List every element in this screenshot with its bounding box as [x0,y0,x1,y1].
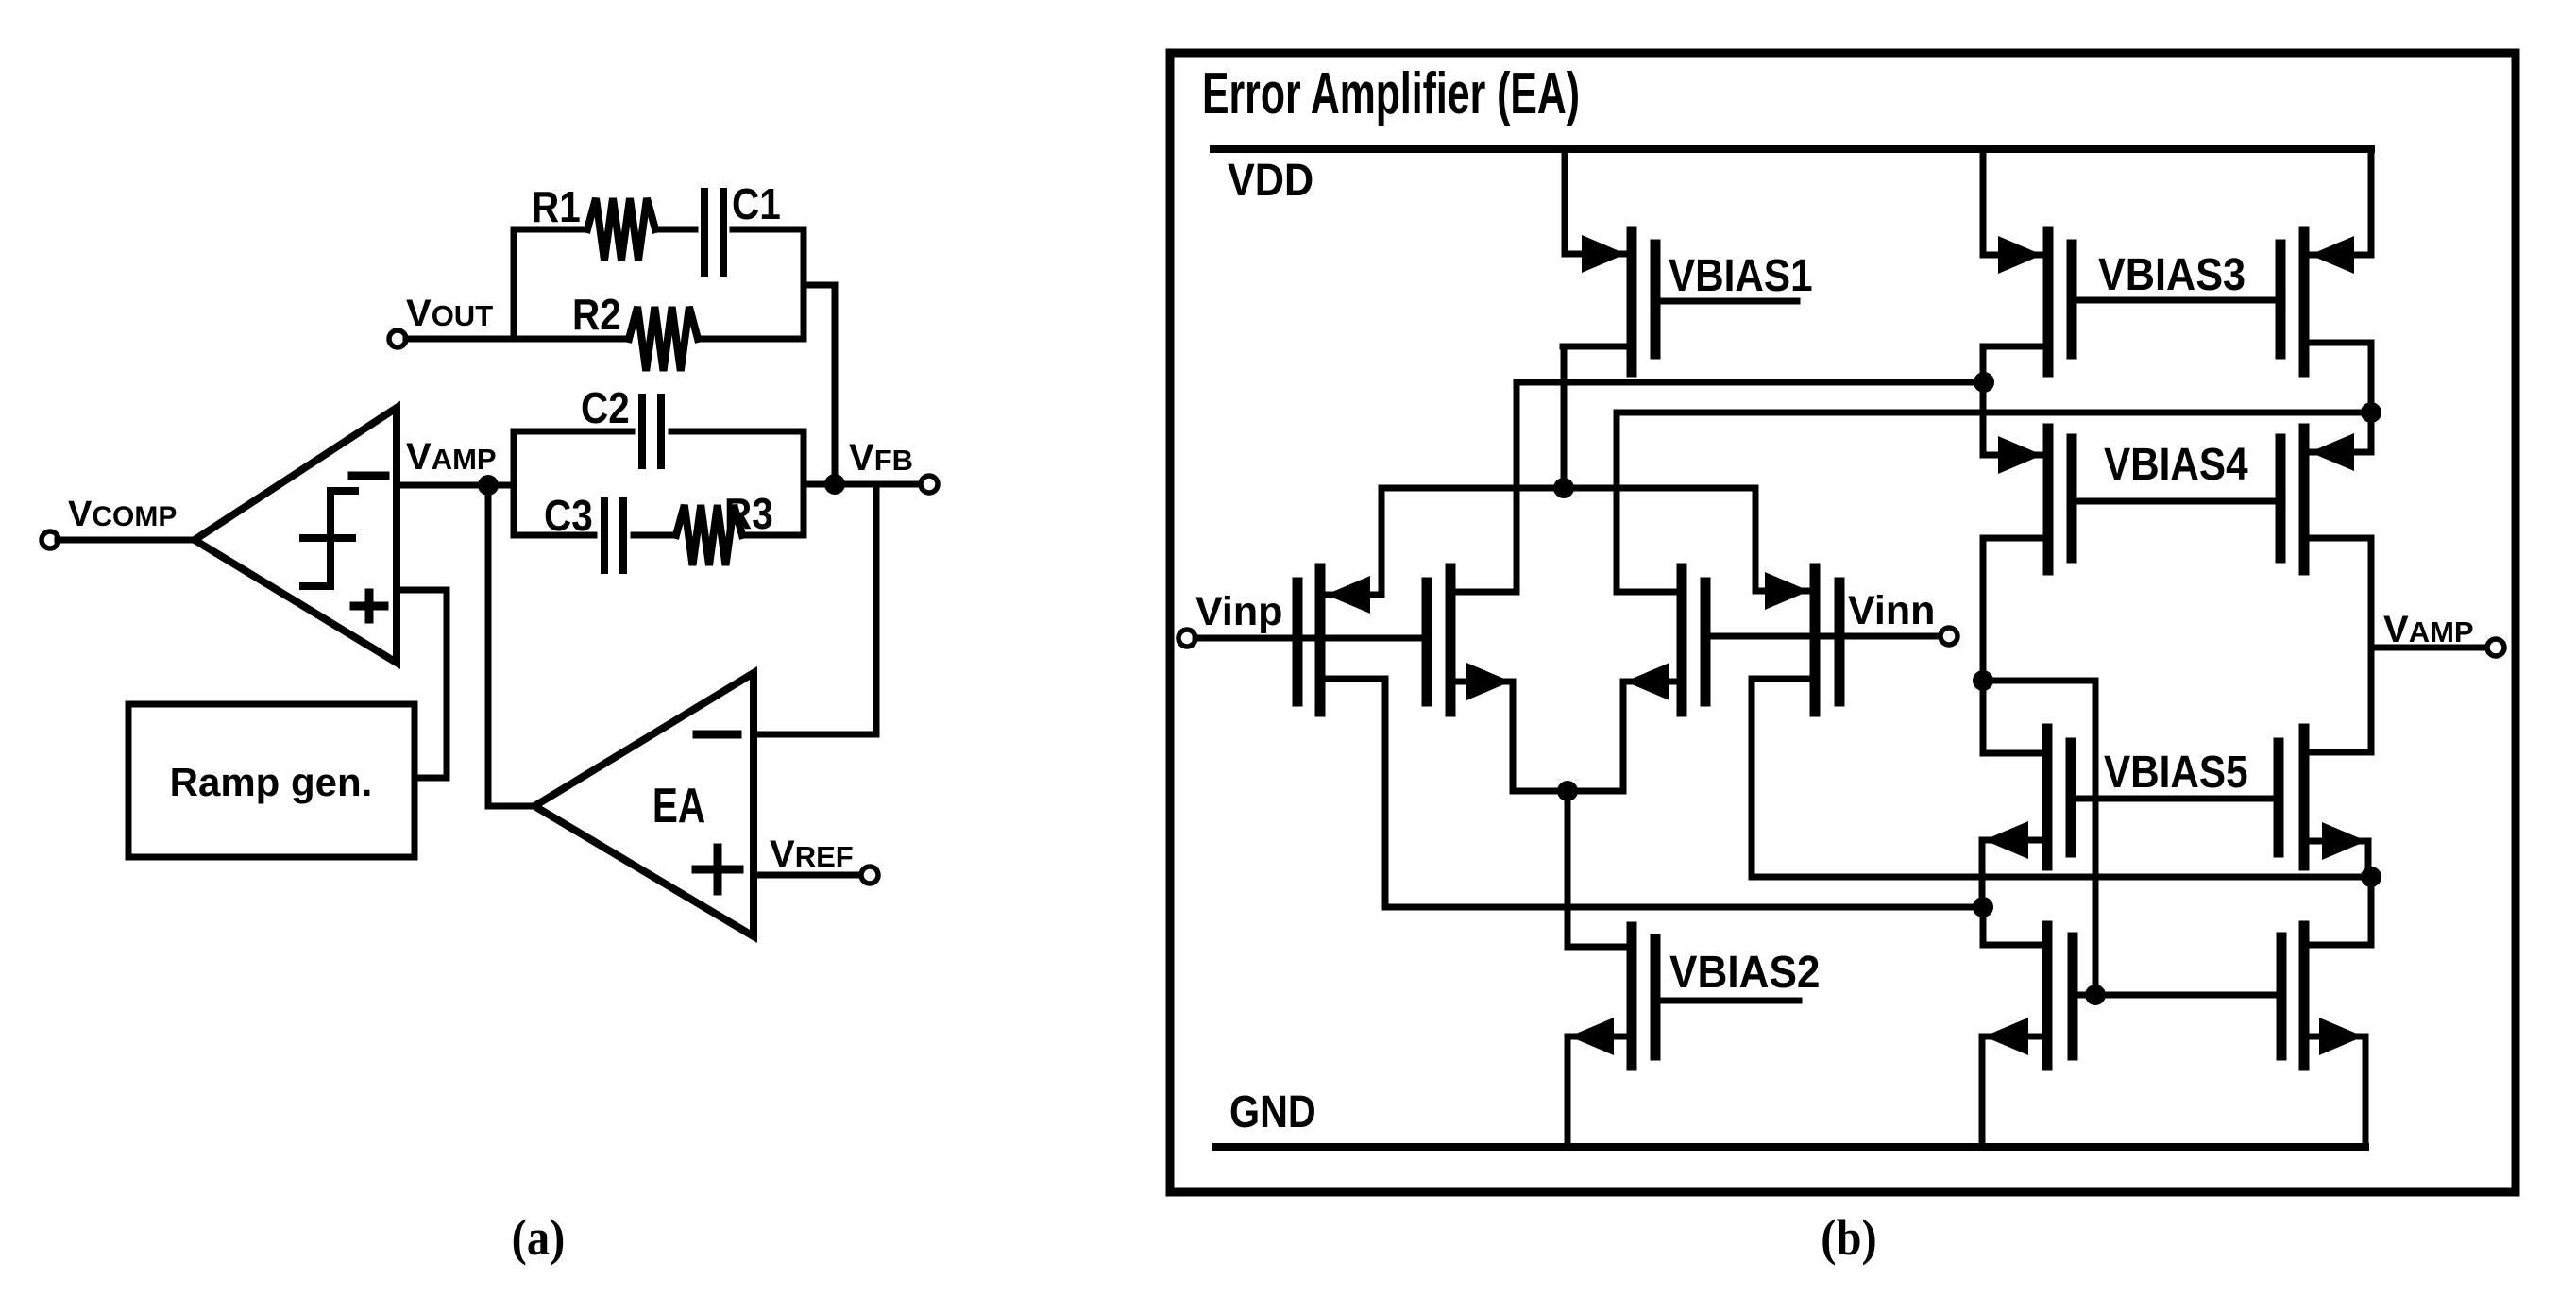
svg-text:VBIAS5: VBIAS5 [2104,746,2248,797]
svg-text:(b): (b) [1821,1210,1876,1267]
svg-text:Vinp: Vinp [1195,589,1282,634]
svg-text:VAMP: VAMP [2383,609,2474,650]
svg-text:VFB: VFB [849,437,913,479]
svg-text:R1: R1 [532,184,581,232]
svg-text:C1: C1 [732,181,781,229]
svg-text:VBIAS3: VBIAS3 [2098,249,2246,300]
svg-text:R3: R3 [724,491,773,539]
svg-text:Ramp gen.: Ramp gen. [170,760,373,804]
svg-text:VAMP: VAMP [406,436,497,478]
svg-text:VBIAS4: VBIAS4 [2104,438,2248,489]
svg-text:C3: C3 [544,493,593,541]
svg-text:C2: C2 [581,385,630,433]
svg-text:R2: R2 [572,292,621,340]
svg-text:Error Amplifier (EA): Error Amplifier (EA) [1202,61,1580,126]
svg-text:VREF: VREF [770,833,854,875]
svg-text:VBIAS2: VBIAS2 [1669,946,1820,997]
svg-text:EA: EA [652,778,705,833]
svg-text:VCOMP: VCOMP [68,495,177,534]
svg-text:GND: GND [1229,1086,1316,1137]
svg-text:VOUT: VOUT [406,293,493,334]
svg-text:VDD: VDD [1228,155,1313,206]
svg-text:VBIAS1: VBIAS1 [1669,249,1813,300]
svg-text:(a): (a) [512,1210,566,1267]
svg-text:Vinn: Vinn [1848,588,1935,633]
